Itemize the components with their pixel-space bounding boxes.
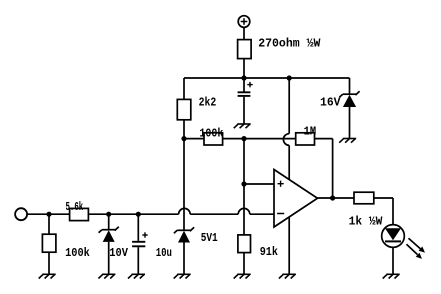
svg-text:270ohm ½W: 270ohm ½W [258, 36, 321, 50]
wire between hops [190, 213, 238, 215]
wire R8 to LED corner [374, 197, 393, 199]
svg-text:100k: 100k [199, 127, 223, 141]
ground (D1) [339, 139, 356, 143]
junction rail/op-amp V+ [287, 75, 292, 80]
capacitor C1 [238, 82, 253, 96]
junction R5/C2 [136, 212, 141, 217]
zener D3 5V1 [174, 227, 194, 274]
resistor R6 100k [42, 234, 56, 252]
LED light arrow 2 [407, 244, 423, 259]
wire positive rail [184, 77, 350, 79]
wire R2 to node A / down to D3 [183, 120, 185, 231]
wire op-amp V- to ground [288, 217, 290, 274]
resistor R2 2k2 [177, 99, 191, 119]
wire R4 to feedback corner [315, 138, 333, 140]
svg-text:2k2: 2k2 [199, 96, 217, 110]
wire to op-amp non-inverting input [244, 183, 274, 185]
resistor R7 91k [238, 235, 251, 253]
LED light arrow 1 [409, 238, 426, 252]
svg-text:91k: 91k [260, 245, 278, 259]
svg-text:5V1: 5V1 [201, 231, 218, 245]
capacitor C2 10u [132, 232, 148, 246]
junction output node [330, 195, 335, 200]
junction node B (input/R6) [46, 212, 51, 217]
wire to op-amp inverting input [250, 213, 274, 215]
wire node A to R3 [184, 138, 204, 140]
svg-text:100k: 100k [65, 246, 90, 260]
junction R3/91k column [241, 136, 246, 141]
svg-text:5.6k: 5.6k [66, 200, 84, 214]
wire C2 to ground [137, 247, 139, 274]
svg-text:16V: 16V [320, 96, 341, 110]
ground (op-amp V-) [279, 274, 296, 278]
wire op-amp V+ (hops over feedback line) [283, 78, 289, 180]
ground (R6) [39, 274, 56, 278]
wire C2 top [137, 214, 139, 241]
junction R5/D2 [106, 212, 111, 217]
resistor R8 1k [354, 192, 374, 204]
junction node A (R2/R3) [181, 136, 186, 141]
wire feedback down to output [332, 139, 334, 198]
wire rail to R2 [183, 78, 185, 99]
svg-text:10u: 10u [156, 246, 172, 260]
wire input terminal to node B [27, 213, 69, 215]
ground (C2) [128, 274, 145, 278]
wire C1 to ground [243, 97, 245, 124]
wire R6 to ground [48, 252, 50, 274]
input terminal [15, 208, 27, 220]
wire R3 to R4 (passes hop) [223, 138, 296, 140]
resistor R1 270ohm [238, 40, 252, 59]
ground (LED) [383, 274, 400, 278]
wire hop over 91k column [238, 208, 250, 214]
op-amp U1 [274, 170, 318, 228]
wire R7 to ground [243, 253, 245, 275]
ground (D3) [174, 274, 191, 278]
svg-text:1k ½W: 1k ½W [349, 215, 384, 229]
junction + input tap [241, 181, 246, 186]
wire down to LED [392, 198, 394, 225]
ground (C1) [234, 124, 251, 128]
wire hop over D3 column [179, 208, 191, 214]
ground (R7) [234, 274, 251, 278]
zener D1 16V [339, 78, 359, 139]
wire op-amp output [318, 197, 355, 199]
resistor R3 100k [204, 133, 223, 145]
svg-text:1M: 1M [304, 125, 317, 139]
ground (D2) [98, 274, 115, 278]
wire rail to C1 [243, 78, 245, 92]
wire R5 to hop at D3 column [88, 213, 178, 215]
LED D4 [382, 225, 405, 248]
resistor R5 5.6k [70, 208, 89, 220]
wire 91k column (node to + input to R7) [243, 139, 245, 235]
zener D2 10V [99, 214, 119, 274]
junction rail/C1 [241, 75, 246, 80]
wire node B down to R6 [48, 214, 50, 234]
svg-text:10V: 10V [109, 246, 128, 260]
wire R1 to rail [243, 59, 245, 78]
wire LED to ground [392, 247, 394, 274]
wire terminal to R1 [243, 27, 245, 39]
resistor R4 1M [296, 133, 315, 145]
power terminal (+) [238, 16, 250, 28]
